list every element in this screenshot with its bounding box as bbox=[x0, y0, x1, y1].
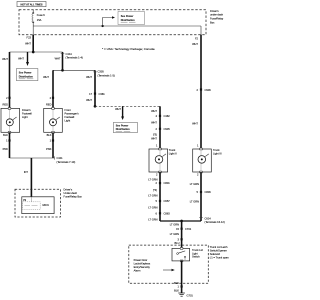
svg-text:Power Door: Power Door bbox=[134, 258, 148, 262]
svg-text:C906: C906 bbox=[205, 88, 212, 92]
svg-text:C701: C701 bbox=[185, 227, 192, 231]
svg-text:( 1 = Trunk open: ( 1 = Trunk open bbox=[210, 255, 230, 259]
svg-text:PNK: PNK bbox=[46, 147, 52, 151]
svg-text:WHT: WHT bbox=[151, 121, 157, 125]
svg-text:Alarm: Alarm bbox=[134, 268, 141, 272]
svg-text:WHT: WHT bbox=[2, 57, 8, 61]
svg-text:Light III: Light III bbox=[213, 152, 222, 156]
svg-text:Entry/Security: Entry/Security bbox=[134, 265, 151, 269]
svg-text:Trunk Lid Latch: Trunk Lid Latch bbox=[210, 245, 228, 249]
svg-text:(Terminals 1-4): (Terminals 1-4) bbox=[66, 55, 83, 59]
svg-text:LT GRN: LT GRN bbox=[170, 232, 179, 236]
svg-text:WHT: WHT bbox=[192, 121, 198, 125]
svg-text:BLK: BLK bbox=[3, 133, 8, 137]
svg-text:HOT AT ALL TIMES: HOT AT ALL TIMES bbox=[21, 4, 43, 7]
svg-text:Solenoid: Solenoid bbox=[210, 252, 221, 256]
svg-text:Switch: Switch bbox=[192, 255, 200, 259]
svg-text:WHT: WHT bbox=[192, 42, 198, 46]
svg-text:BLK: BLK bbox=[174, 288, 179, 292]
svg-text:(Terminals 16-12): (Terminals 16-12) bbox=[205, 220, 225, 224]
svg-text:Trunk: Trunk bbox=[213, 148, 220, 152]
svg-text:C801: C801 bbox=[164, 181, 171, 185]
svg-text:C305: C305 bbox=[98, 70, 105, 74]
svg-text:(*3): (*3) bbox=[153, 132, 157, 136]
svg-text:LT GRN: LT GRN bbox=[148, 193, 157, 197]
svg-text:RED: RED bbox=[46, 103, 52, 107]
svg-text:WHT: WHT bbox=[25, 41, 31, 45]
svg-text:BLU: BLU bbox=[174, 241, 179, 245]
svg-text:BLK: BLK bbox=[47, 133, 52, 137]
svg-text:BLK: BLK bbox=[174, 281, 179, 285]
svg-text:under-dash: under-dash bbox=[210, 13, 224, 17]
svg-text:Fuse/Relay: Fuse/Relay bbox=[210, 17, 224, 21]
svg-text:WHT: WHT bbox=[151, 137, 157, 141]
svg-text:WHT: WHT bbox=[86, 75, 92, 79]
svg-text:C863: C863 bbox=[164, 211, 171, 215]
svg-text:See Power: See Power bbox=[116, 124, 129, 127]
svg-text:C411: C411 bbox=[57, 156, 64, 160]
svg-text:Distribution: Distribution bbox=[116, 128, 130, 131]
svg-text:Footwell: Footwell bbox=[65, 115, 75, 119]
svg-text:LT GRN: LT GRN bbox=[148, 206, 157, 210]
svg-text:Driver's: Driver's bbox=[210, 9, 219, 13]
svg-text:PNK: PNK bbox=[3, 147, 9, 151]
svg-text:C614: C614 bbox=[205, 217, 212, 221]
svg-text:Light: Light bbox=[65, 119, 71, 123]
svg-text:Light II: Light II bbox=[169, 152, 177, 156]
svg-text:(Terminals 7-10): (Terminals 7-10) bbox=[57, 160, 76, 164]
svg-text:WHT: WHT bbox=[43, 75, 49, 79]
svg-text:Fuse/Relay Box: Fuse/Relay Box bbox=[64, 194, 83, 198]
svg-text:C482: C482 bbox=[164, 114, 171, 118]
svg-text:Box: Box bbox=[210, 21, 215, 25]
svg-text:Light: Light bbox=[22, 115, 28, 119]
svg-text:WHT: WHT bbox=[86, 98, 92, 102]
svg-text:(Terminals 1-5): (Terminals 1-5) bbox=[98, 73, 115, 77]
svg-text:Driver's: Driver's bbox=[64, 187, 73, 191]
svg-text:WHT: WHT bbox=[115, 107, 121, 111]
svg-text:Distribution: Distribution bbox=[19, 76, 33, 79]
svg-text:See Power: See Power bbox=[19, 72, 32, 75]
svg-text:15A: 15A bbox=[37, 18, 42, 22]
svg-text:INT: INT bbox=[24, 170, 29, 174]
svg-text:MICU: MICU bbox=[43, 203, 50, 207]
svg-text:C806: C806 bbox=[205, 190, 212, 194]
svg-text:C414: C414 bbox=[66, 52, 73, 56]
svg-text:LT GRN: LT GRN bbox=[148, 178, 157, 182]
svg-text:LT GRN: LT GRN bbox=[170, 222, 179, 226]
svg-text:LT GRN: LT GRN bbox=[190, 182, 199, 186]
svg-text:RED: RED bbox=[3, 103, 9, 107]
svg-text:* = USA: Technology Package; C: * = USA: Technology Package; Console bbox=[102, 47, 155, 51]
svg-text:C657: C657 bbox=[164, 199, 171, 203]
svg-text:See Power: See Power bbox=[121, 15, 134, 18]
svg-text:Switch/Opener: Switch/Opener bbox=[210, 248, 227, 252]
svg-text:(*4): (*4) bbox=[153, 188, 157, 192]
svg-text:Trunk: Trunk bbox=[169, 148, 176, 152]
svg-text:F23: F23 bbox=[27, 35, 32, 39]
svg-text:LT GRN: LT GRN bbox=[190, 200, 199, 204]
svg-text:G701: G701 bbox=[187, 294, 194, 298]
svg-text:LT GRN: LT GRN bbox=[148, 217, 157, 221]
svg-text:Distribution: Distribution bbox=[121, 19, 135, 22]
svg-text:Passenger's: Passenger's bbox=[65, 112, 80, 116]
svg-text:WHT: WHT bbox=[55, 57, 61, 61]
svg-text:Locks/Keyless: Locks/Keyless bbox=[134, 261, 151, 265]
svg-text:C905: C905 bbox=[164, 127, 171, 131]
svg-text:Front: Front bbox=[65, 108, 71, 112]
svg-text:Footwell: Footwell bbox=[22, 112, 32, 116]
svg-text:Fuse 6: Fuse 6 bbox=[37, 13, 45, 17]
svg-text:Driver's: Driver's bbox=[22, 108, 31, 112]
svg-text:WHT: WHT bbox=[18, 57, 24, 61]
svg-text:Under-dash: Under-dash bbox=[64, 191, 78, 195]
svg-text:WHT: WHT bbox=[151, 109, 157, 113]
svg-text:C381: C381 bbox=[99, 92, 106, 96]
